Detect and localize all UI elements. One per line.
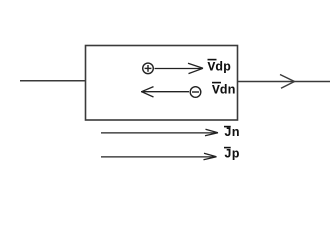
label Jp: [224, 147, 240, 162]
svg-text:Vdn: Vdn: [212, 82, 236, 97]
arrow hole drift velocity: [155, 63, 204, 73]
label Vdp: [208, 60, 232, 75]
electron symbol (circled minus): [190, 87, 201, 98]
hole symbol (circled plus): [143, 63, 154, 74]
label Jn: [224, 125, 240, 140]
arrow electron current density Jn: [101, 129, 218, 136]
svg-text:Vdp: Vdp: [208, 60, 232, 75]
arrowhead current direction right lead: [280, 75, 295, 89]
svg-text:Jp: Jp: [224, 147, 240, 162]
label Vdn: [212, 82, 236, 97]
arrow electron drift velocity (leftward): [141, 87, 189, 97]
arrow hole current density Jp: [101, 153, 217, 160]
wire right lead: [238, 81, 331, 83]
wire left lead: [20, 80, 85, 82]
semiconductor bar (box): [86, 46, 238, 121]
